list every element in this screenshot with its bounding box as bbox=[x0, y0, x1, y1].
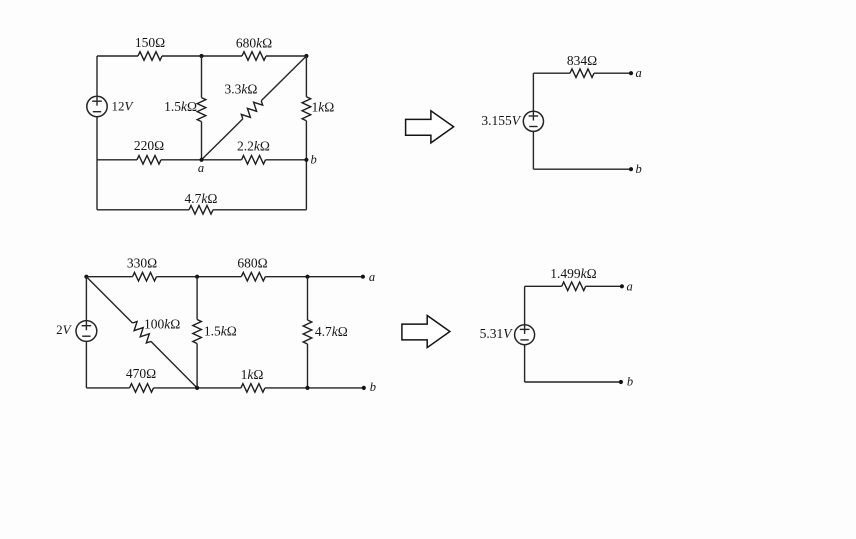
voltage source 5.31V bbox=[515, 325, 535, 345]
wire bbox=[96, 56, 98, 96]
node a junction bbox=[199, 158, 203, 162]
wire bbox=[97, 55, 138, 57]
wire bbox=[196, 277, 198, 320]
svg-text:100kΩ: 100kΩ bbox=[144, 317, 180, 332]
resistor 1.5k ohm bbox=[193, 320, 202, 344]
voltage source 12V bbox=[87, 96, 107, 116]
resistor 3.3k ohm (diagonal) bbox=[241, 101, 262, 119]
wire bbox=[265, 276, 363, 278]
voltage source 2V bbox=[76, 321, 97, 342]
wire bbox=[201, 56, 203, 98]
terminal a bbox=[361, 275, 365, 279]
wire bbox=[97, 159, 137, 161]
resistor 1.5k ohm bbox=[197, 98, 206, 122]
resistor 1.499k ohm bbox=[562, 282, 586, 291]
wire bbox=[162, 55, 242, 57]
svg-text:a: a bbox=[636, 66, 642, 80]
svg-text:1.5kΩ: 1.5kΩ bbox=[204, 324, 237, 339]
svg-text:680Ω: 680Ω bbox=[237, 255, 267, 270]
junction node top-middle bbox=[199, 54, 203, 58]
terminal a bbox=[629, 71, 633, 75]
resistor 1k ohm bbox=[241, 384, 265, 393]
svg-text:4.7kΩ: 4.7kΩ bbox=[315, 324, 348, 339]
svg-text:330Ω: 330Ω bbox=[127, 255, 157, 270]
junction top-middle bbox=[195, 275, 199, 279]
wire bbox=[594, 72, 631, 74]
svg-text:3.3kΩ: 3.3kΩ bbox=[225, 82, 258, 97]
wire bbox=[307, 344, 309, 388]
arrow (implies equivalent) bbox=[406, 111, 454, 143]
wire bbox=[524, 286, 526, 325]
node b junction bbox=[304, 158, 308, 162]
svg-text:a: a bbox=[627, 280, 633, 294]
wire diagonal lower bbox=[151, 341, 197, 388]
resistor 2.2k ohm bbox=[242, 156, 266, 165]
wire bbox=[85, 277, 87, 321]
wire bbox=[586, 285, 622, 287]
wire bbox=[532, 73, 534, 111]
wire bbox=[532, 131, 534, 169]
junction bottom-middle bbox=[195, 386, 199, 390]
resistor 680 ohm bbox=[241, 272, 265, 281]
terminal a bbox=[620, 284, 624, 288]
wire bbox=[86, 387, 129, 389]
arrow (implies equivalent) bbox=[402, 316, 450, 348]
wire bbox=[196, 344, 198, 388]
wire bbox=[266, 159, 307, 161]
resistor 330 ohm bbox=[133, 272, 157, 281]
svg-text:2.2kΩ: 2.2kΩ bbox=[237, 139, 270, 154]
resistor 1k ohm bbox=[302, 97, 311, 121]
resistor 100k ohm (diagonal) bbox=[133, 322, 151, 343]
wire bbox=[266, 55, 306, 57]
svg-text:2V: 2V bbox=[56, 322, 73, 337]
wire bbox=[525, 285, 562, 287]
wire bbox=[86, 276, 132, 278]
wire bbox=[525, 381, 621, 383]
svg-text:3.155V: 3.155V bbox=[481, 113, 521, 128]
wire bbox=[161, 159, 242, 161]
wire bbox=[533, 72, 570, 74]
svg-text:1.5kΩ: 1.5kΩ bbox=[164, 99, 197, 114]
wire bbox=[97, 209, 189, 211]
junction bottom-right bbox=[305, 386, 309, 390]
terminal b bbox=[362, 386, 366, 390]
svg-text:a: a bbox=[369, 270, 375, 284]
resistor 834 ohm bbox=[570, 69, 594, 78]
wire bbox=[96, 117, 98, 210]
svg-text:b: b bbox=[370, 380, 376, 394]
wire bbox=[533, 168, 631, 170]
voltage source 3.155V bbox=[523, 111, 543, 131]
svg-text:1kΩ: 1kΩ bbox=[241, 367, 264, 382]
svg-text:834Ω: 834Ω bbox=[567, 53, 597, 68]
resistor 680k ohm bbox=[242, 52, 266, 61]
resistor 4.7k ohm bbox=[303, 320, 312, 344]
resistor 220 ohm bbox=[137, 156, 161, 165]
svg-text:470Ω: 470Ω bbox=[126, 366, 156, 381]
svg-text:4.7kΩ: 4.7kΩ bbox=[185, 191, 218, 206]
svg-text:b: b bbox=[636, 162, 642, 176]
junction top-right bbox=[305, 275, 309, 279]
wire diagonal upper bbox=[86, 277, 132, 323]
svg-text:1kΩ: 1kΩ bbox=[312, 100, 335, 115]
wire bbox=[201, 122, 203, 160]
terminal b bbox=[629, 167, 633, 171]
svg-text:5.31V: 5.31V bbox=[480, 326, 514, 341]
svg-text:b: b bbox=[311, 153, 317, 167]
svg-text:1.499kΩ: 1.499kΩ bbox=[550, 266, 596, 281]
wire bbox=[213, 209, 306, 211]
terminal b bbox=[619, 380, 623, 384]
resistor 470 ohm bbox=[130, 384, 154, 393]
svg-text:680kΩ: 680kΩ bbox=[236, 35, 272, 50]
wire bbox=[307, 277, 309, 320]
svg-text:12V: 12V bbox=[112, 99, 135, 114]
wire bbox=[305, 56, 307, 97]
svg-text:a: a bbox=[198, 161, 204, 175]
svg-text:150Ω: 150Ω bbox=[135, 35, 165, 50]
wire bbox=[157, 276, 242, 278]
resistor 150 ohm bbox=[138, 52, 162, 61]
svg-text:b: b bbox=[627, 374, 633, 388]
svg-text:220Ω: 220Ω bbox=[134, 138, 164, 153]
wire bbox=[305, 121, 307, 210]
wire diagonal lower bbox=[202, 119, 243, 160]
wire bbox=[265, 387, 364, 389]
wire bbox=[85, 341, 87, 388]
junction node top-right bbox=[304, 54, 308, 58]
resistor 4.7k ohm bbox=[189, 206, 213, 215]
wire diagonal upper bbox=[261, 56, 306, 101]
wire bbox=[524, 345, 526, 382]
wire bbox=[154, 387, 241, 389]
junction top-left bbox=[84, 275, 88, 279]
